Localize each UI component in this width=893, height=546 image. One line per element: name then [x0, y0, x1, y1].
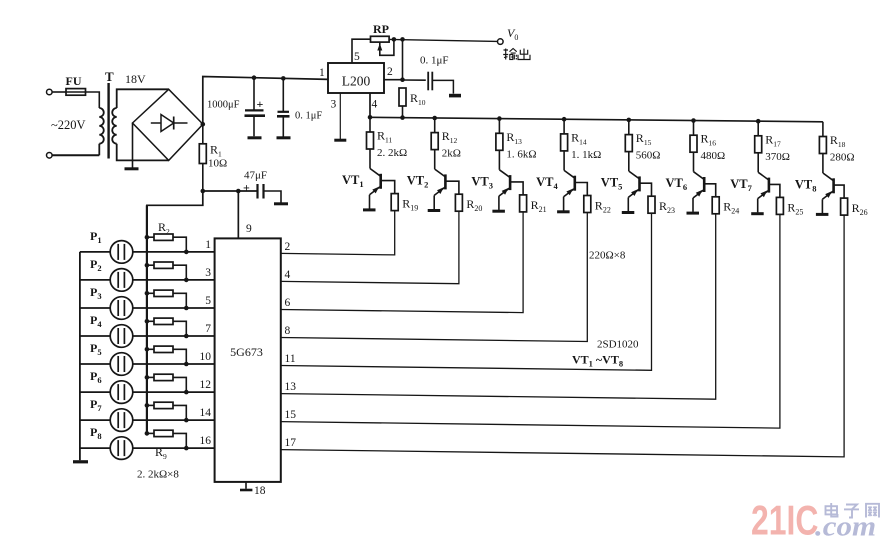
pin 16 label [200, 435, 212, 447]
wire (button to common) [80, 391, 110, 393]
svg-text:+: + [257, 97, 264, 111]
wire (to IC pin 16) [133, 447, 215, 449]
ground (transformer/bridge) [125, 167, 139, 170]
svg-text:8: 8 [285, 325, 291, 337]
ground (1000μF) [248, 136, 262, 139]
pushbutton P5 [90, 341, 133, 375]
node [184, 250, 189, 255]
wire (RP wiper) [377, 39, 394, 55]
node [145, 319, 150, 324]
transistor VT7 2SD1020 [730, 172, 769, 198]
capacitor 0.1μF (output) [403, 55, 449, 91]
node (rail junction stage 3) [497, 116, 502, 121]
ground (VT3 emitter) [492, 210, 505, 213]
svg-text:560Ω: 560Ω [636, 150, 661, 162]
node [252, 75, 257, 80]
wire (emitter to ground) [692, 198, 694, 212]
wire (R26 to IC pin 17) [281, 215, 844, 457]
pushbutton P6 [90, 369, 133, 403]
wire (button to common) [80, 279, 110, 281]
resistor R14 1. 1kΩ [561, 119, 602, 170]
node (rail junction stage 5) [627, 118, 632, 123]
svg-text:21IC: 21IC [751, 496, 818, 543]
wire (emitter to ground) [433, 195, 435, 209]
svg-text:10: 10 [200, 351, 212, 363]
wire (emitter to ground) [627, 197, 629, 211]
resistor R13 1. 6kΩ [496, 119, 537, 170]
svg-text:480Ω: 480Ω [701, 150, 726, 162]
wire (bridge output to L200 pin 1) [203, 77, 328, 125]
wire (emitter to ground) [821, 199, 823, 213]
node [145, 263, 150, 268]
ground (VT4 emitter) [557, 210, 570, 213]
node [184, 278, 189, 283]
node [400, 77, 405, 82]
wire (to IC pin 14) [133, 419, 215, 421]
svg-text:2: 2 [285, 241, 291, 253]
logo 电子网 [826, 503, 880, 518]
capacitor 0.1μF (input) [277, 78, 322, 136]
wire (base) [834, 185, 845, 198]
pin 11 label [285, 353, 296, 365]
resistor R21 220Ω [520, 195, 547, 214]
wire (V+ to 47μF) [203, 190, 258, 192]
svg-text:2kΩ: 2kΩ [442, 148, 461, 160]
label VT1~VT8 [572, 353, 623, 369]
svg-text:VT1 ~VT8: VT1 ~VT8 [572, 353, 623, 369]
node [184, 446, 189, 451]
pin 3 label [331, 99, 337, 111]
wire (secondary bottom) [117, 144, 169, 161]
pin 10 label [200, 351, 212, 363]
ground (VT8 emitter) [816, 213, 829, 216]
wire (base) [704, 184, 716, 197]
svg-text:0. 1μF: 0. 1μF [420, 55, 449, 67]
wire (button to common) [80, 363, 110, 365]
svg-text:18: 18 [254, 485, 266, 497]
wire (pull-up bus vertical) [146, 205, 148, 433]
wire (button to common) [80, 335, 110, 337]
wire (R20 to IC pin 4) [281, 211, 459, 284]
pushbutton P7 [90, 397, 133, 431]
resistor R15 560Ω [625, 120, 660, 171]
ground (VT1 emitter) [363, 208, 376, 211]
wire (to IC pin 10) [133, 363, 215, 365]
svg-text:0. 1μF: 0. 1μF [295, 111, 322, 122]
svg-text:10Ω: 10Ω [208, 158, 227, 170]
resistor R20 220Ω [455, 194, 482, 213]
op-amp U2 5G673 controller IC [215, 238, 281, 482]
svg-text:5: 5 [354, 51, 360, 63]
svg-text:2SD1020: 2SD1020 [597, 339, 639, 351]
wire (button to common) [80, 447, 110, 449]
pin 3 label [205, 267, 211, 279]
transformer T secondary winding [112, 108, 116, 144]
svg-text:1: 1 [205, 239, 211, 251]
diode (inside bridge) [151, 115, 188, 132]
wire [52, 154, 99, 156]
svg-text:FU: FU [66, 74, 82, 88]
resistor R22 220Ω [584, 196, 611, 215]
pin 5 wire [352, 39, 371, 63]
pin 2 label [387, 66, 393, 78]
transistor VT4 2SD1020 [536, 170, 575, 196]
node (rail junction stage 6) [691, 118, 696, 123]
wire (R22 to IC pin 8) [281, 213, 588, 342]
label 220Ω×8 [589, 250, 626, 262]
pin 1 label [205, 239, 211, 251]
resistor R19 220Ω [391, 194, 418, 213]
transistor VT8 2SD1020 [795, 173, 834, 199]
resistor R3 2.2kΩ [147, 262, 186, 280]
node [145, 347, 150, 352]
resistor R23 220Ω [648, 196, 675, 215]
svg-text:4: 4 [372, 99, 378, 111]
wire (secondary top) [117, 89, 169, 108]
pin 4 wire [369, 93, 371, 117]
pushbutton P2 [90, 257, 133, 291]
pin 1 label [319, 67, 325, 79]
pin 12 label [200, 379, 212, 391]
wire (feedback node down) [402, 39, 404, 79]
svg-text:~220V: ~220V [51, 118, 86, 132]
terminal (AC input top) [47, 89, 53, 95]
wire (emitter to ground) [757, 199, 759, 213]
pin 13 label [285, 381, 297, 393]
resistor R5 2.2kΩ [147, 318, 186, 336]
svg-text:L200: L200 [342, 74, 371, 89]
wire (to IC pin 3) [133, 279, 215, 281]
pin 4 label [372, 99, 378, 111]
svg-text:13: 13 [285, 381, 297, 393]
svg-text:15: 15 [285, 409, 297, 421]
wire (emitter to ground) [563, 197, 565, 211]
svg-text:1000μF: 1000μF [207, 100, 240, 111]
node [184, 334, 189, 339]
svg-text:3: 3 [205, 267, 211, 279]
node [184, 418, 189, 423]
ground (IC pin 18) [240, 489, 252, 492]
svg-text:3: 3 [331, 99, 337, 111]
svg-text:4: 4 [285, 269, 291, 281]
svg-text:18V: 18V [125, 72, 146, 86]
pin 5 label [354, 51, 360, 63]
svg-text:12: 12 [200, 379, 212, 391]
pin 4 label [285, 269, 291, 281]
svg-text:14: 14 [200, 407, 212, 419]
pin 9 label [246, 223, 252, 235]
label 2SD1020 [597, 339, 639, 351]
ground (0.1μF output) [449, 94, 461, 98]
pin 8 label [285, 325, 291, 337]
svg-text:2: 2 [387, 66, 393, 78]
resistor R17 370Ω [755, 121, 790, 172]
transistor VT2 2SD1020 [407, 169, 446, 195]
resistor R25 220Ω [776, 197, 803, 216]
wire (button to common) [80, 419, 110, 421]
transistor VT6 2SD1020 [666, 172, 705, 198]
node [281, 76, 286, 81]
pin 7 label [205, 323, 211, 335]
label R9 [155, 445, 167, 461]
node (R10 junction) [400, 115, 405, 120]
resistor R11 2. 2kΩ [367, 117, 408, 168]
transistor VT3 2SD1020 [471, 170, 510, 196]
capacitor 1000μF [207, 78, 265, 137]
svg-text:2. 2kΩ×8: 2. 2kΩ×8 [137, 469, 179, 481]
terminal V0 output [498, 26, 519, 44]
svg-text:1: 1 [319, 67, 325, 79]
resistor R4 2.2kΩ [147, 290, 186, 308]
wire (to IC pin 1) [133, 251, 215, 253]
wire (R24 to IC pin 13) [281, 214, 716, 399]
label 2.2kΩ×8 [137, 469, 179, 481]
pin 17 label [285, 437, 297, 449]
resistor R10 [399, 88, 426, 119]
label 输出 (output) [503, 49, 530, 60]
node (V+ node) [201, 189, 206, 194]
resistor R24 220Ω [712, 197, 739, 216]
wire [264, 191, 282, 203]
svg-text:+: + [243, 181, 250, 195]
wire (button to common) [80, 251, 110, 253]
ground (VT7 emitter) [751, 212, 764, 215]
pin 9 wire [237, 191, 239, 238]
transformer T primary winding [99, 108, 103, 155]
wire (supply rail) [369, 117, 823, 122]
ground (VT5 emitter) [622, 211, 635, 214]
resistor R2 2.2kΩ [147, 234, 186, 252]
svg-text:5G673: 5G673 [230, 345, 263, 359]
svg-text:1. 6kΩ: 1. 6kΩ [506, 148, 536, 160]
label R2 [158, 220, 170, 236]
wire (to IC pin 7) [133, 335, 215, 337]
svg-text:5: 5 [205, 295, 211, 307]
node [184, 362, 189, 367]
terminal (AC input bottom) [47, 153, 53, 159]
wire [86, 92, 100, 108]
wire (base) [640, 183, 652, 196]
capacitor 47μF [243, 170, 267, 199]
bridge rectifier diamond [133, 89, 204, 160]
wire (base) [575, 183, 588, 196]
op-amp U1 L200 regulator [328, 63, 384, 93]
svg-text:.com: .com [815, 510, 876, 542]
transformer T core [105, 69, 114, 159]
resistor R26 220Ω [841, 198, 868, 217]
resistor R1 10Ω [199, 124, 227, 191]
node (pin4/R11 junction) [368, 115, 373, 120]
pin 18 wire [245, 482, 247, 489]
transistor VT1 2SD1020 [342, 169, 381, 195]
wire (base) [381, 181, 395, 194]
pin 5 label [205, 295, 211, 307]
pushbutton P4 [90, 313, 133, 347]
node [145, 431, 150, 436]
potentiometer RP [371, 22, 390, 42]
svg-text:220Ω×8: 220Ω×8 [589, 250, 626, 262]
svg-text:16: 16 [200, 435, 212, 447]
pin 2 label [285, 241, 291, 253]
pushbutton P3 [90, 285, 133, 319]
svg-text:7: 7 [205, 323, 211, 335]
pin 18 label [254, 485, 266, 497]
node [145, 235, 150, 240]
svg-text:9: 9 [246, 223, 252, 235]
resistor R8 2.2kΩ [147, 402, 186, 420]
resistor R18 280Ω [819, 122, 854, 173]
ground (keypad common) [73, 460, 88, 463]
ground (0.1μF input) [277, 136, 291, 139]
node [145, 291, 150, 296]
wire (R21 to IC pin 6) [281, 212, 523, 313]
wire [52, 91, 66, 93]
wire (V+ to IC pin 9) [237, 191, 239, 238]
svg-text:1. 1kΩ: 1. 1kΩ [571, 149, 601, 161]
node [184, 306, 189, 311]
wire (base) [445, 181, 459, 194]
node [184, 390, 189, 395]
svg-text:2. 2kΩ: 2. 2kΩ [377, 147, 407, 159]
wire (bridge left vertex to ground) [132, 123, 134, 168]
ground (47μF) [274, 202, 288, 205]
wire (to IC pin 5) [133, 307, 215, 309]
transistor VT5 2SD1020 [601, 171, 640, 197]
ground (L200 pin 3) [334, 139, 346, 142]
svg-text:370Ω: 370Ω [765, 151, 790, 163]
logo 21IC [751, 496, 818, 543]
node [392, 37, 397, 42]
svg-text:RP: RP [373, 22, 389, 36]
svg-text:T: T [105, 69, 114, 84]
wire (keypad common bus to ground) [79, 252, 81, 460]
wire (base) [510, 182, 523, 195]
fuse FU [66, 74, 86, 95]
pushbutton P1 [90, 229, 133, 263]
ground (VT6 emitter) [687, 212, 700, 215]
node [400, 37, 405, 42]
resistor R9 2.2kΩ [147, 430, 186, 448]
wire [432, 80, 453, 93]
wire (base) [769, 184, 780, 197]
wire (R19 to IC pin 2) [281, 211, 395, 255]
wire (emitter to ground) [369, 195, 371, 209]
wire (to IC pin 12) [133, 391, 215, 393]
node [145, 403, 150, 408]
node (rail junction stage 7) [756, 119, 761, 124]
logo .com [815, 510, 876, 542]
pin 15 label [285, 409, 297, 421]
svg-text:6: 6 [285, 297, 291, 309]
node (rail junction stage 4) [562, 117, 567, 122]
svg-text:280Ω: 280Ω [830, 152, 855, 164]
wire (R25 to IC pin 15) [281, 214, 780, 428]
wire (R23 to IC pin 11) [281, 213, 652, 370]
wire (V+ down to keypad pull-up bus) [147, 191, 203, 237]
label 18V [125, 72, 146, 86]
label ~220V [51, 118, 86, 132]
svg-text:11: 11 [285, 353, 296, 365]
pin 3 wire [339, 93, 341, 139]
ground (VT2 emitter) [428, 209, 441, 212]
resistor R7 2.2kΩ [147, 374, 186, 392]
node (rail junction stage 2) [432, 116, 437, 121]
wire (output line) [389, 39, 497, 41]
resistor R12 2kΩ [431, 118, 461, 169]
pin 2 wire [384, 79, 403, 81]
node [236, 189, 241, 194]
node (bridge output) [201, 122, 206, 127]
pin 14 label [200, 407, 212, 419]
pushbutton P8 [90, 425, 133, 459]
resistor R6 2.2kΩ [147, 346, 186, 364]
wire (emitter to ground) [498, 196, 500, 210]
resistor R16 480Ω [690, 121, 725, 172]
pin 6 label [285, 297, 291, 309]
svg-text:17: 17 [285, 437, 297, 449]
node [145, 375, 150, 380]
wire (button to common) [80, 307, 110, 309]
